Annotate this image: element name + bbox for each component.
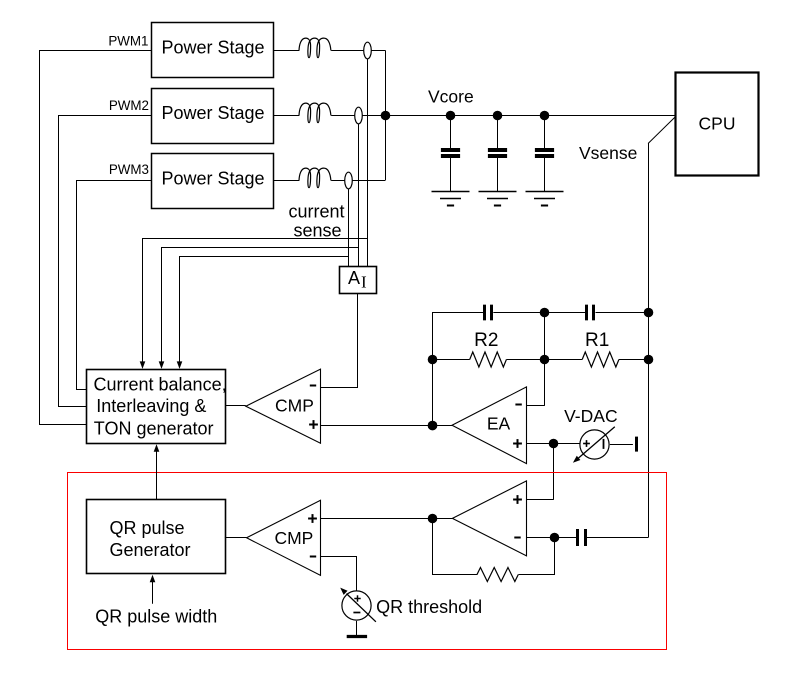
svg-text:Vcore: Vcore (428, 87, 474, 107)
svg-text:TON generator: TON generator (94, 418, 214, 438)
svg-text:PWM2: PWM2 (109, 98, 149, 113)
svg-text:R1: R1 (585, 330, 609, 351)
svg-text:Power Stage: Power Stage (161, 103, 264, 123)
svg-text:Power Stage: Power Stage (161, 169, 264, 189)
svg-text:Power Stage: Power Stage (161, 38, 264, 58)
svg-text:QR pulse width: QR pulse width (95, 606, 217, 626)
svg-text:sense: sense (293, 221, 341, 241)
svg-text:V-DAC: V-DAC (564, 406, 617, 426)
svg-text:Generator: Generator (109, 540, 190, 560)
svg-text:Vsense: Vsense (579, 143, 637, 163)
svg-text:current: current (288, 201, 344, 221)
svg-text:QR pulse: QR pulse (109, 518, 184, 538)
svg-text:EA: EA (487, 414, 511, 434)
svg-text:PWM3: PWM3 (109, 162, 149, 177)
svg-text:PWM1: PWM1 (108, 34, 148, 49)
svg-text:CMP: CMP (274, 528, 313, 548)
svg-text:I: I (361, 273, 367, 292)
svg-text:CPU: CPU (699, 114, 736, 134)
svg-text:A: A (348, 268, 360, 288)
svg-text:Interleaving &: Interleaving & (96, 396, 206, 416)
svg-text:QR threshold: QR threshold (376, 597, 482, 617)
svg-text:R2: R2 (474, 330, 498, 351)
svg-text:CMP: CMP (275, 396, 314, 416)
svg-text:Current balance,: Current balance, (94, 375, 227, 395)
